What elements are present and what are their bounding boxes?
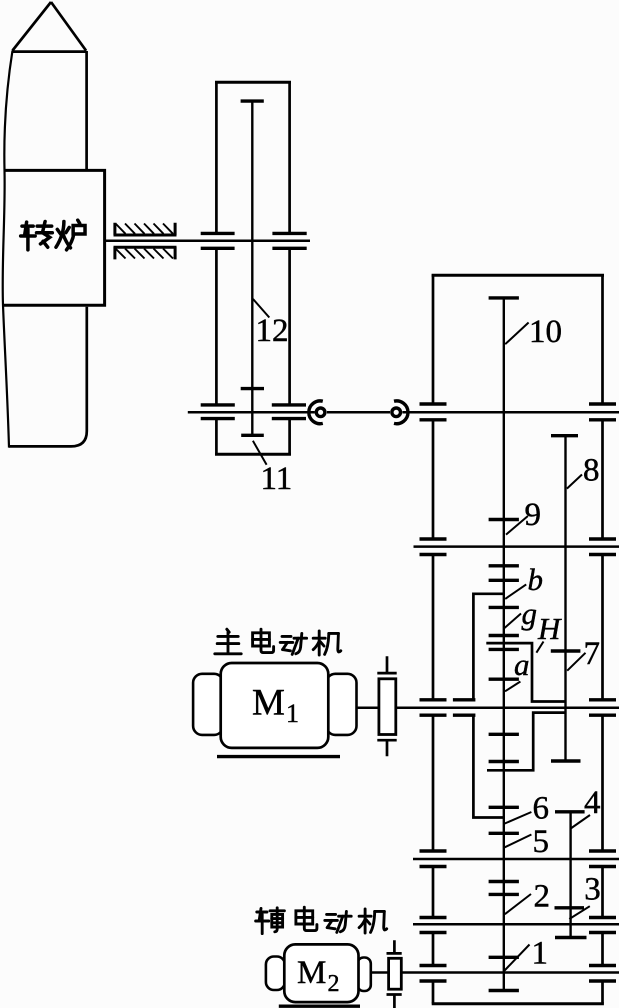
svg-text:H: H (537, 611, 562, 646)
gear b top bar (489, 564, 519, 567)
svg-text:7: 7 (584, 636, 601, 672)
leader line 2 (505, 894, 531, 914)
shaft 4 bottom end bar (555, 936, 587, 939)
gear 2 bottom bar (489, 893, 519, 896)
svg-text:6: 6 (533, 791, 550, 827)
svg-text:1: 1 (532, 936, 549, 972)
svg-text:8: 8 (583, 453, 600, 489)
label 动 (aux motor text char 3) (325, 911, 351, 932)
ring gear b bottom bar (489, 579, 519, 582)
right gearbox left wall (432, 275, 435, 1004)
converter cone top (12, 2, 87, 52)
leader line a (505, 682, 520, 692)
svg-text:1: 1 (286, 699, 299, 728)
intermediate shaft between couplings (327, 411, 390, 414)
leader line g (505, 614, 522, 629)
brake top support M2 (387, 940, 402, 953)
planet carrier H upper (486, 643, 565, 701)
svg-text:2: 2 (328, 971, 340, 997)
left gearbox right wall (288, 81, 291, 454)
leader line 3 (569, 906, 590, 919)
left gearbox bottom edge (215, 453, 291, 456)
leader line b (505, 584, 526, 599)
right gearbox right wall (601, 275, 604, 1004)
leader line 8 (567, 475, 582, 489)
bearings on right wall (589, 404, 616, 981)
converter body break line (wavy left edge) (3, 51, 13, 448)
brake top support M1 (377, 656, 396, 673)
sun gear a top bar (489, 648, 519, 651)
motor M1 base line (217, 755, 340, 758)
planet gear g bottom bar (489, 634, 519, 637)
brake bottom support M2 (387, 995, 402, 1008)
aux motor M2 body (284, 944, 358, 1002)
coupling left arc (309, 401, 323, 424)
leader line 5 (505, 835, 532, 848)
coupling right arc (394, 401, 408, 424)
bearing right wall lower shaft (272, 405, 306, 419)
aux motor M2 left end cap (266, 957, 285, 991)
shaft IV (413, 858, 619, 861)
leader line 1 (504, 945, 530, 972)
frame bearing top hatching (116, 224, 174, 234)
brake body M1 (379, 679, 396, 735)
shaft 8 bottom end bar (551, 759, 581, 762)
shaft VI (aux motor shaft) (401, 971, 619, 974)
left gearbox output shaft (188, 411, 315, 414)
lower sun gear bar (489, 760, 519, 763)
gear 6 (489, 806, 519, 809)
converter lower body with rounded corner (9, 307, 87, 447)
svg-text:5: 5 (533, 824, 550, 860)
motor M1 shaft (357, 707, 379, 710)
label 辅 (aux motor text char 1) (256, 908, 285, 934)
gear below shaft III (489, 733, 519, 736)
central vertical shaft (503, 298, 505, 991)
label 炉 (converter char 2) (56, 220, 85, 250)
svg-text:12: 12 (256, 313, 289, 349)
sun gear a bottom bar (489, 678, 519, 681)
gear 9 (489, 518, 519, 521)
svg-text:10: 10 (529, 314, 562, 350)
shaft V (413, 923, 619, 926)
bearing right wall upper shaft (272, 233, 306, 248)
label 电 (aux motor text char 2) (296, 907, 317, 930)
vertical shaft of gears 8 and 7 (564, 436, 566, 761)
leader line 4 (571, 815, 590, 829)
frame bearing top bracket (114, 223, 177, 235)
converter trunnion shaft (105, 239, 310, 242)
left gearbox left wall (215, 81, 218, 454)
shaft 8 top end bar (551, 434, 578, 437)
label 电 (main motor text char 2) (253, 629, 274, 652)
leader line 10 (505, 323, 528, 345)
bearing left wall upper shaft (201, 233, 235, 248)
gear 5 (489, 832, 519, 835)
label 动 (main motor text char 3) (280, 633, 306, 654)
bearings on left wall (420, 404, 447, 981)
gear 2 top bar (489, 880, 519, 883)
planet gear g top bar (489, 606, 519, 609)
converter trunnion box (转炉 label box) (3, 170, 105, 305)
shaft III (main motor shaft) (396, 707, 619, 710)
leader line H (536, 642, 543, 653)
coupling left ring (316, 408, 325, 417)
shaft top end bar (489, 296, 519, 299)
gear 1 (489, 956, 519, 959)
brake body M2 (389, 958, 402, 989)
main motor M1 body (221, 663, 329, 748)
shaft 12 top end bar (241, 99, 264, 102)
shaft II (414, 545, 619, 548)
svg-text:3: 3 (584, 872, 601, 908)
svg-text:2: 2 (534, 879, 551, 915)
leader line 9 (506, 516, 528, 535)
label 机 (main motor text char 4) (313, 631, 341, 655)
frame bearing bottom hatching (116, 249, 174, 259)
shaft I (input from coupling) (402, 411, 619, 414)
ring gear support cup lower (473, 715, 503, 817)
leader line 12 (253, 299, 269, 318)
label 主 (main motor text char 1) (215, 629, 241, 654)
converter neck right edge (85, 51, 88, 171)
right gearbox bottom edge (432, 1002, 604, 1005)
inner bearing on shaft III (453, 700, 476, 715)
vertical shaft of gear 12 (251, 101, 253, 435)
svg-text:M: M (252, 683, 285, 724)
leader line 11 (253, 441, 267, 465)
label 转 (converter char 1) (21, 221, 53, 249)
coupling right ring (392, 408, 401, 417)
brake bottom support M1 (377, 740, 396, 756)
vertical shaft of gears 4 and 3 (569, 812, 571, 938)
gear 7 (551, 649, 581, 652)
shaft bottom end bar (489, 989, 519, 992)
main motor M1 right end cap (326, 674, 356, 735)
label 机 (aux motor text char 4) (359, 909, 387, 933)
main motor M1 left end cap (193, 674, 223, 735)
right gearbox top edge (432, 274, 604, 277)
svg-text:a: a (514, 647, 530, 682)
aux motor M2 right end cap (358, 958, 371, 992)
frame bearing bottom bracket (114, 247, 177, 259)
motor M2 base line (279, 1005, 360, 1008)
svg-text:4: 4 (584, 785, 601, 821)
svg-text:11: 11 (261, 461, 293, 497)
gear 11 (241, 434, 264, 437)
gear on shaft 12 (241, 387, 264, 390)
ring gear b support cup upper (473, 594, 503, 700)
leader line 6 (504, 812, 532, 824)
left gearbox top edge (215, 81, 291, 84)
svg-text:b: b (528, 562, 544, 597)
bearing left wall lower shaft (201, 405, 235, 419)
planet carrier lower stage (487, 713, 566, 771)
gear 3 (555, 906, 585, 909)
svg-text:M: M (297, 955, 326, 991)
motor M2 shaft (371, 971, 389, 974)
svg-text:g: g (522, 596, 538, 631)
leader line 7 (567, 653, 585, 671)
svg-text:9: 9 (525, 497, 542, 533)
gear 4 end bar (555, 810, 585, 813)
